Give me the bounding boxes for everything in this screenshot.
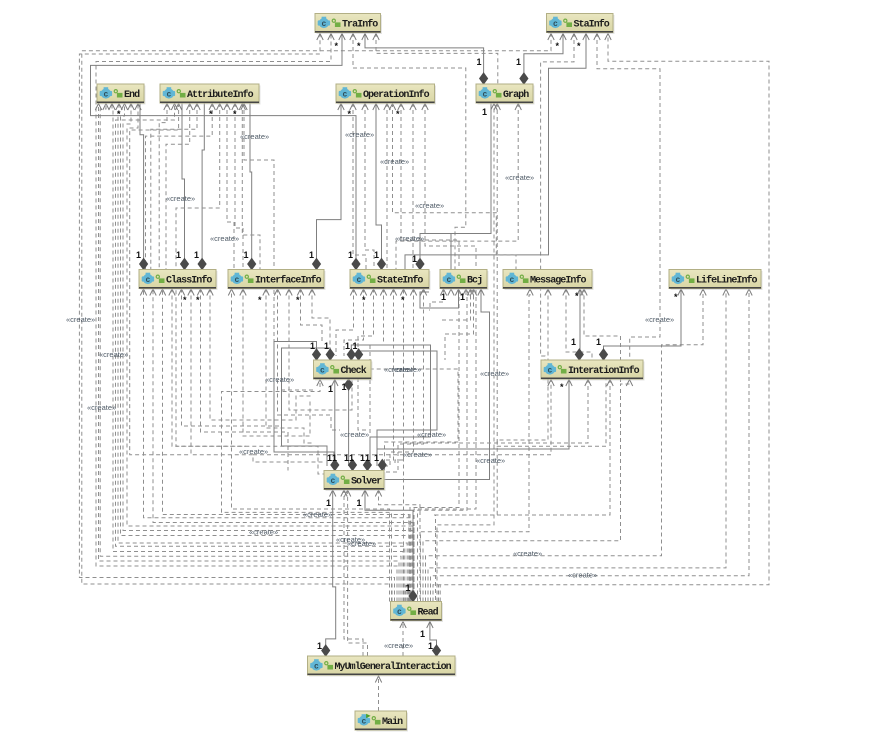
arrowhead — [209, 104, 215, 111]
InterfaceInfo creates AttributeInfo 2 — [235, 103, 243, 270]
diamond — [331, 460, 339, 471]
arrowhead — [548, 34, 554, 41]
arrowhead — [128, 104, 134, 111]
arrowhead — [373, 104, 379, 111]
svg-text:1: 1 — [136, 250, 141, 260]
Bcj fan 1 — [429, 289, 444, 311]
svg-text:c: c — [446, 276, 451, 285]
MyUml creates Read dashed — [402, 621, 404, 657]
svg-text:«create»: «create» — [345, 130, 374, 139]
arrowhead — [317, 380, 323, 387]
diamond — [575, 349, 583, 360]
ClassInfo creates AttributeInfo 2 — [151, 103, 197, 270]
hatch line into Read — [439, 585, 441, 602]
svg-text:«create»: «create» — [417, 430, 446, 439]
OperationInfo to StateInfo diamond 2 — [376, 103, 382, 270]
svg-text:*: * — [258, 295, 262, 305]
arrowhead — [297, 289, 303, 296]
svg-text:1: 1 — [516, 57, 521, 67]
svg-text:1: 1 — [441, 292, 446, 302]
Read to TraInfo — [79, 33, 394, 602]
arrowhead — [350, 104, 356, 111]
arrowhead — [239, 104, 245, 111]
End to ClassInfo diamond — [140, 103, 144, 270]
diamond — [363, 460, 371, 471]
Read to MessageInfo — [421, 289, 531, 602]
svg-text:Check: Check — [341, 365, 367, 377]
arrowhead — [700, 289, 706, 296]
Check creates AttributeInfo b — [244, 103, 274, 342]
Read to ClassInfo b — [144, 289, 411, 602]
svg-text:«create»: «create» — [513, 549, 542, 558]
arrowhead — [455, 289, 461, 296]
StateInfo owns StaInfo solid — [405, 33, 586, 270]
Graph to Bcj solid 1 — [450, 234, 452, 289]
diamond — [345, 379, 353, 390]
svg-text:OperationInfo: OperationInfo — [363, 89, 430, 101]
arrowhead — [188, 289, 194, 296]
class box InterationInfo — [541, 360, 645, 381]
arrowhead — [463, 289, 469, 296]
MessageInfo creates OperationInfo — [393, 103, 517, 270]
Solver creates InterationInfo 3 — [253, 379, 551, 455]
Solver creates AttributeInfo long — [176, 103, 246, 446]
diamond — [248, 259, 256, 270]
InterfaceInfo creates AttributeInfo 1 — [227, 103, 234, 270]
diamond — [181, 259, 189, 270]
svg-text:«create»: «create» — [249, 528, 278, 537]
svg-text:«create»: «create» — [87, 403, 116, 412]
svg-text:1: 1 — [349, 453, 354, 463]
arrowhead — [470, 289, 476, 296]
arrowhead — [95, 104, 101, 111]
svg-text:«create»: «create» — [384, 641, 413, 650]
class box End — [97, 84, 146, 105]
class box MyUmlGeneralInteraction — [308, 656, 457, 677]
diamond — [313, 259, 321, 270]
Read to Bcj — [418, 289, 468, 602]
arrowhead — [103, 104, 109, 111]
Read to End e — [118, 103, 407, 602]
svg-text:1: 1 — [324, 341, 329, 351]
arrowhead — [746, 289, 752, 296]
Check bottom diamond to Solver — [348, 379, 350, 466]
svg-text:1: 1 — [374, 453, 379, 463]
svg-text:«create»: «create» — [239, 447, 268, 456]
arrowhead — [169, 289, 175, 296]
diamond — [140, 259, 148, 270]
arrowhead — [150, 289, 156, 296]
svg-text:Read: Read — [418, 606, 439, 618]
svg-text:1: 1 — [412, 254, 417, 264]
Solver creates InterfaceInfo 5 — [266, 289, 314, 444]
arrowhead — [577, 289, 583, 296]
svg-text:«create»: «create» — [66, 315, 95, 324]
svg-text:1: 1 — [571, 337, 576, 347]
arrowhead — [339, 34, 345, 41]
Bcj to Solver solid — [385, 289, 490, 480]
diamond — [409, 591, 417, 602]
svg-text:1: 1 — [477, 57, 482, 67]
arrowhead — [207, 289, 213, 296]
svg-text:1: 1 — [342, 382, 347, 392]
class box OperationInfo — [336, 84, 436, 105]
svg-text:LifeLineInfo: LifeLineInfo — [696, 274, 758, 286]
StateInfo to Bcj solid — [420, 289, 459, 309]
arrowhead — [121, 104, 127, 111]
svg-text:*: * — [362, 295, 366, 305]
arrowhead — [494, 104, 500, 111]
arrowhead — [422, 104, 428, 111]
Solver creates StateInfo 6 — [384, 289, 424, 473]
arrowhead — [263, 289, 269, 296]
Read to End b — [100, 103, 401, 602]
Read to TraInfo 2 — [96, 33, 397, 602]
arrowhead — [197, 289, 203, 296]
svg-text:Graph: Graph — [503, 89, 529, 101]
Solver creates AttributeInfo a — [130, 103, 191, 455]
Graph creates TraInfo — [376, 33, 498, 84]
class box Main — [355, 711, 408, 732]
arrowhead — [410, 289, 416, 296]
Solver creates StateInfo 2 — [358, 289, 374, 431]
arrowhead — [240, 289, 246, 296]
class box StateInfo — [350, 270, 431, 291]
svg-text:*: * — [396, 109, 400, 119]
StaInfo solid to Graph diamond — [524, 33, 563, 77]
Solver creates InterfaceInfo 6 — [301, 289, 323, 342]
arrowhead — [427, 622, 433, 629]
InterfaceInfo creates AttributeInfo 3 — [242, 103, 260, 270]
arrowhead — [448, 289, 454, 296]
svg-text:c: c — [145, 276, 150, 285]
StateInfo creates OperationInfo 4 — [412, 103, 414, 270]
hatch line into Read — [407, 585, 409, 602]
svg-text:1: 1 — [309, 250, 314, 260]
class box TraInfo — [315, 14, 382, 35]
svg-text:c: c — [553, 20, 558, 29]
class box Graph — [476, 84, 535, 105]
Bcj creates TraInfo — [353, 33, 466, 270]
Main generalizes MyUml dashed — [378, 676, 380, 712]
svg-text:1: 1 — [244, 250, 249, 260]
svg-text:1: 1 — [406, 583, 411, 593]
svg-text:*: * — [117, 109, 121, 119]
arrowhead — [527, 289, 533, 296]
arrowhead — [224, 104, 230, 111]
svg-text:«create»: «create» — [340, 430, 369, 439]
Check top diamond hook 2 — [282, 348, 331, 466]
svg-text:1: 1 — [596, 337, 601, 347]
svg-text:c: c — [314, 663, 319, 672]
Read to ClassInfo a — [153, 289, 413, 602]
svg-text:1: 1 — [345, 341, 350, 351]
arrowhead — [140, 289, 146, 296]
arrowhead — [467, 289, 473, 296]
arrowhead — [400, 289, 406, 296]
svg-text:«create»: «create» — [415, 201, 444, 210]
Solver creates MessageInfo 2 — [584, 289, 621, 385]
arrowhead — [678, 289, 684, 296]
arrowhead — [171, 104, 177, 111]
Solver creates ClassInfo 2 — [172, 289, 324, 475]
diamond — [347, 349, 355, 360]
svg-text:1: 1 — [420, 629, 425, 639]
svg-text:c: c — [330, 477, 335, 486]
svg-text:«create»: «create» — [347, 539, 376, 548]
Check creates right — [370, 369, 458, 471]
arrowhead — [585, 380, 591, 387]
MyUml creates Check dashed — [348, 490, 368, 657]
svg-text:«create»: «create» — [403, 450, 432, 459]
InterationInfo owns LifeLineInfo — [604, 289, 682, 361]
arrowhead — [286, 289, 292, 296]
Read creates InterationInfo 2 — [433, 379, 610, 515]
Solver creates StateInfo 5 — [384, 289, 414, 467]
arrowhead — [116, 104, 122, 111]
svg-text:c: c — [509, 276, 514, 285]
svg-text:«create»: «create» — [166, 194, 195, 203]
AttributeInfo to ClassInfo diamond — [182, 103, 185, 270]
InterationInfo creates Graph 3 — [497, 103, 606, 446]
arrowhead — [159, 289, 165, 296]
class box MessageInfo — [503, 270, 594, 291]
Solver creates InterfaceInfo 4 — [312, 289, 330, 357]
Read creates Solver — [379, 490, 421, 602]
arrowhead — [109, 104, 115, 111]
OperationInfo to InterfaceInfo diamond — [317, 103, 342, 270]
arrowhead — [545, 289, 551, 296]
arrowhead — [560, 34, 566, 41]
arrowhead — [571, 34, 577, 41]
class box ClassInfo — [139, 270, 218, 291]
Solver creates Bcj — [440, 289, 471, 321]
diamond — [355, 349, 363, 360]
Solver creates InterfaceInfo — [243, 289, 314, 437]
svg-text:*: * — [296, 295, 300, 305]
svg-text:1: 1 — [348, 250, 353, 260]
svg-text:*: * — [233, 109, 237, 119]
svg-text:«create»: «create» — [240, 132, 269, 141]
arrowhead — [274, 289, 280, 296]
arrowhead — [389, 104, 395, 111]
arrowhead — [328, 34, 334, 41]
svg-text:1: 1 — [328, 384, 333, 394]
Solver creates ClassInfo 5 — [210, 289, 314, 421]
Solver owns Read solid association — [365, 490, 413, 602]
svg-text:1: 1 — [428, 641, 433, 651]
Read to LifeLineInfo 2 — [428, 289, 726, 602]
svg-text:*: * — [209, 109, 213, 119]
arrowhead — [344, 490, 350, 497]
svg-text:c: c — [166, 91, 171, 100]
Read to End a — [99, 103, 400, 602]
Read to StateInfo — [403, 289, 405, 602]
svg-text:1: 1 — [374, 250, 379, 260]
arrowhead — [175, 104, 181, 111]
svg-text:ClassInfo: ClassInfo — [166, 274, 212, 286]
arrowhead — [723, 289, 729, 296]
arrowhead — [332, 380, 338, 387]
ClassInfo creates AttributeInfo 1 — [166, 103, 190, 270]
svg-text:c: c — [321, 20, 326, 29]
Read to InterfaceInfo — [232, 289, 390, 602]
svg-text:c: c — [103, 91, 108, 100]
arrowhead — [566, 380, 572, 387]
svg-text:Solver: Solver — [351, 475, 382, 487]
svg-text:«create»: «create» — [392, 365, 421, 374]
class box Solver — [324, 471, 386, 492]
arrowhead — [187, 104, 193, 111]
Read to LifeLineInfo — [426, 289, 704, 602]
InterationInfo owns MessageInfo solid — [578, 289, 581, 361]
svg-text:1: 1 — [482, 107, 487, 117]
svg-text:InterfaceInfo: InterfaceInfo — [255, 274, 322, 286]
arrowhead — [398, 104, 404, 111]
arrowhead — [135, 104, 141, 111]
arrowhead — [384, 104, 390, 111]
Read to End g — [123, 103, 412, 602]
svg-text:«create»: «create» — [568, 571, 597, 580]
Read to End c — [112, 103, 403, 602]
arrowhead — [194, 104, 200, 111]
svg-text:«create»: «create» — [505, 173, 534, 182]
diamond — [378, 259, 386, 270]
Read to StaInfo — [82, 33, 551, 602]
Solver creates StateInfo 4 — [384, 289, 394, 461]
arrowhead — [317, 34, 323, 41]
arrowhead — [583, 34, 589, 41]
Read to End f — [121, 103, 410, 602]
svg-text:*: * — [674, 292, 678, 302]
svg-text:AttributeInfo: AttributeInfo — [187, 89, 254, 101]
arrowhead — [362, 490, 368, 497]
Check creates StateInfo — [344, 289, 364, 357]
diamond — [352, 259, 360, 270]
svg-text:1: 1 — [326, 498, 331, 508]
svg-text:«create»: «create» — [380, 157, 409, 166]
arrowhead — [178, 289, 184, 296]
svg-text:1: 1 — [365, 453, 370, 463]
arrowhead — [491, 104, 497, 111]
diamond — [433, 645, 441, 656]
svg-text:StateInfo: StateInfo — [377, 274, 423, 286]
Solver creates InterfaceInfo 2 — [278, 289, 341, 431]
Solver creates StateInfo 3 — [370, 289, 384, 437]
svg-text:1: 1 — [460, 292, 465, 302]
svg-text:«create»: «create» — [476, 456, 505, 465]
arrowhead — [420, 289, 426, 296]
arrowhead — [548, 380, 554, 387]
Read to Check — [222, 379, 392, 602]
Read to AttributeInfo — [116, 103, 405, 602]
arrowhead — [515, 104, 521, 111]
svg-text:1: 1 — [194, 250, 199, 260]
StateInfo creates Graph — [396, 103, 518, 270]
AttributeInfo to ClassInfo diamond 2 — [202, 103, 204, 270]
Read owns MyUml solid — [430, 621, 437, 657]
Solver creates InterationInfo — [395, 379, 588, 466]
class box Check — [314, 360, 373, 381]
arrowhead — [400, 622, 406, 629]
InterationInfo creates StaInfo — [541, 33, 574, 360]
Solver creates ClassInfo 3 — [191, 289, 324, 463]
arrowhead — [360, 289, 366, 296]
svg-text:StaInfo: StaInfo — [574, 18, 610, 30]
hatch line into Read — [438, 585, 440, 602]
class box StaInfo — [547, 14, 615, 35]
diamond — [600, 349, 608, 360]
class box AttributeInfo — [160, 84, 261, 105]
Read to LifeLineInfo 3 — [431, 289, 750, 602]
svg-text:*: * — [196, 295, 200, 305]
Read to InterationInfo — [423, 379, 630, 602]
arrowhead — [581, 289, 587, 296]
svg-text:c: c — [482, 91, 487, 100]
StateInfo owns TraInfo solid far left — [91, 33, 357, 270]
InterationInfo creates StaInfo 3 — [597, 33, 660, 360]
StateInfo creates OperationInfo — [365, 103, 374, 270]
arrowhead — [309, 289, 315, 296]
arrowhead — [370, 289, 376, 296]
svg-text:«create»: «create» — [480, 369, 509, 378]
arrowhead — [375, 490, 381, 497]
arrowhead — [217, 104, 223, 111]
Solver creates InterfaceInfo 3 — [289, 289, 352, 411]
arrowhead — [380, 289, 386, 296]
svg-text:*: * — [348, 109, 352, 119]
svg-text:*: * — [357, 41, 361, 51]
arrowhead — [241, 104, 247, 111]
arrowhead — [338, 104, 344, 111]
arrowhead — [626, 380, 632, 387]
Check top diamond hook 1 — [274, 342, 334, 467]
Read creates OperationInfo — [414, 103, 476, 602]
diamond — [349, 460, 357, 471]
svg-text:1: 1 — [176, 250, 181, 260]
arrowhead — [330, 490, 336, 497]
arrowhead — [350, 289, 356, 296]
InterationInfo creates MessageInfo — [566, 289, 592, 361]
arrowhead — [362, 104, 368, 111]
arrowhead — [563, 289, 569, 296]
AttributeInfo to InterfaceInfo diamond — [250, 103, 252, 270]
svg-text:c: c — [675, 276, 680, 285]
svg-text:TraInfo: TraInfo — [342, 18, 378, 30]
diamond — [313, 349, 321, 360]
svg-text:*: * — [560, 382, 564, 392]
Read to Graph — [437, 103, 494, 602]
svg-text:«create»: «create» — [395, 234, 424, 243]
Solver creates Bcj 2 — [445, 289, 474, 361]
Check top diamond hook 3 — [351, 345, 430, 466]
Solver creates ClassInfo 4 — [201, 289, 289, 471]
arrowhead — [232, 104, 238, 111]
svg-text:c: c — [356, 276, 361, 285]
diamond — [322, 645, 330, 656]
Graph owns StateInfo solid — [420, 103, 491, 270]
svg-text:*: * — [575, 291, 579, 301]
Solver creates MessageInfo — [436, 289, 549, 602]
svg-text:1: 1 — [357, 498, 362, 508]
svg-text:Bcj: Bcj — [467, 274, 482, 286]
Check top diamond hook 4 — [359, 351, 437, 466]
diamond — [480, 73, 488, 84]
class box InterfaceInfo — [228, 270, 326, 291]
svg-text:*: * — [401, 295, 405, 305]
arrowhead — [605, 34, 611, 41]
diamond — [378, 460, 386, 471]
